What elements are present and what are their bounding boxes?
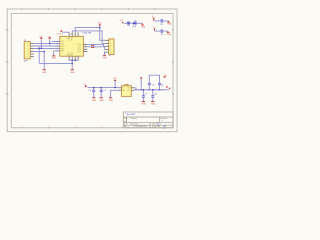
wire U1 right pin1 to J2 pin3: [87, 44, 105, 46]
cap circuit row1: power port VCC: [152, 16, 155, 21]
regulator U2 body: [122, 84, 132, 96]
port tag right of U1 pin 2: [91, 46, 94, 49]
cap circuit row2: power port VCC: [153, 27, 156, 31]
svg-text:1 2 3 4: 1 2 3 4: [69, 33, 74, 35]
connector J1 designator label: [24, 40, 27, 42]
svg-text:GND: GND: [52, 58, 57, 60]
ground under C3: [92, 92, 97, 102]
svg-text:Date:: Date:: [124, 123, 129, 126]
LED D1: [133, 20, 137, 28]
svg-text:Mini USB: Mini USB: [127, 114, 136, 116]
svg-text:R1: R1: [128, 25, 130, 27]
svg-text:GND: GND: [42, 72, 47, 74]
power port VCC at wire bend: [98, 22, 102, 27]
capacitor C7 stem: [142, 90, 144, 96]
svg-text:GND: GND: [70, 72, 75, 74]
capacitor C8 stem: [152, 90, 154, 96]
ground under C4: [99, 92, 104, 102]
wire regulator GND pin to ground: [111, 90, 119, 97]
svg-text:5: 5: [28, 54, 29, 56]
wire U1 right pin2 to J2 pin4: [87, 47, 105, 50]
junction rail meets pin2 vertical: [72, 63, 73, 64]
ground row2: [167, 31, 172, 36]
svg-text:D+ D-: D+ D-: [68, 40, 73, 42]
power port at loop top: [163, 75, 167, 78]
svg-text:1 / 1: 1 / 1: [157, 124, 161, 126]
junction rail left: [39, 48, 40, 49]
power port VCC above J1 area 1: [39, 36, 43, 48]
svg-text:GND: GND: [142, 104, 147, 106]
wire VCC to resistor: [124, 22, 128, 24]
wire row2: [155, 30, 168, 32]
wire J1 pin1 to U1: [34, 43, 60, 45]
capacitor C3: [89, 90, 96, 92]
junction bottom bus: [72, 60, 73, 61]
svg-text:C9: C9: [161, 34, 163, 36]
wire U1 bottom pin bus: [69, 59, 78, 61]
wire regulator out stub: [134, 88, 136, 90]
ground under C7: [142, 97, 147, 105]
junction C3: [93, 87, 94, 88]
svg-text:GND: GND: [151, 104, 156, 106]
capacitor C4: [100, 90, 107, 92]
connector J1 value label: [24, 60, 28, 62]
wire stub U1 pin1: [52, 40, 60, 42]
ground rail left ground: [42, 63, 47, 74]
wire U1 top pin3 to J2 pin1: [75, 28, 105, 41]
wire J1 pin3 to U1: [34, 47, 60, 49]
ground row1: [167, 21, 172, 26]
ground under J2: [103, 52, 108, 59]
svg-text:C:\USB\MINI.SCH: C:\USB\MINI.SCH: [133, 126, 148, 128]
power port VCC at U1 top-left: [59, 30, 69, 36]
svg-text:A4: A4: [124, 120, 126, 123]
svg-text:4: 4: [110, 49, 111, 51]
junction VCC stem 1: [41, 48, 42, 49]
junction VCC stem 2: [49, 43, 50, 44]
junction loop right: [159, 89, 160, 90]
IC U1 body: [57, 34, 84, 57]
svg-text:6: 6: [28, 57, 29, 59]
svg-text:7: 7: [85, 48, 86, 50]
svg-text:GND: GND: [167, 24, 172, 26]
power rail wire left: [88, 87, 119, 89]
IC U1 left pins: [56, 41, 60, 51]
sheet border inner frame: [11, 13, 173, 127]
IC U1 right pins: [83, 44, 87, 51]
svg-text:PD3: PD3: [78, 51, 82, 53]
wire vertical x39 to rail: [38, 48, 40, 63]
connector J1 pin numbers: [28, 43, 29, 58]
svg-text:8: 8: [85, 46, 86, 48]
svg-text:USB_M8: USB_M8: [83, 32, 93, 34]
capacitor C3 stem: [93, 88, 95, 90]
connector J2 pin numbers: [110, 40, 111, 54]
sheet border outer frame: [7, 9, 177, 132]
title block text: [127, 114, 136, 116]
svg-text:3: 3: [110, 46, 111, 48]
svg-text:2: 2: [110, 43, 111, 45]
svg-text:Drawn By:: Drawn By:: [152, 126, 161, 128]
connector J1 body: [24, 42, 30, 59]
capacitor C6: [158, 83, 163, 86]
power port VCC above J1 area 2: [48, 36, 52, 43]
svg-text:C8: C8: [160, 24, 162, 26]
IC U1 pin number text: [57, 33, 86, 52]
connector J2 body: [109, 39, 114, 55]
svg-text:3: 3: [28, 48, 29, 50]
port tag right of U1 pin: [91, 44, 94, 47]
svg-text:GND: GND: [141, 26, 146, 28]
junction loop left: [149, 89, 150, 90]
connector J1 pins: [30, 44, 34, 57]
svg-text:Size: Size: [124, 118, 128, 120]
ground at LED right: [141, 23, 146, 28]
capacitor C8: [151, 94, 157, 98]
title block: [123, 112, 173, 128]
svg-text:6: 6: [85, 50, 86, 52]
wire row1: [154, 20, 169, 22]
svg-text:GND: GND: [92, 100, 97, 102]
frame zone tick marks: [6, 8, 174, 129]
junction VCC right rail: [141, 89, 142, 90]
junction C7: [143, 89, 144, 90]
ground under C8: [151, 97, 156, 105]
IC U1 interior pin-name text: [61, 38, 81, 57]
connector J2 pins: [105, 40, 109, 52]
connector J2 designator label: [109, 55, 112, 57]
IC U1 top pins: [69, 32, 78, 36]
resistor R1: [127, 22, 130, 27]
capacitor C4 stem: [100, 88, 102, 90]
svg-text:C6: C6: [161, 84, 163, 86]
junction C8: [152, 89, 153, 90]
IC U1 bottom pins: [69, 56, 78, 60]
power rail wire right: [134, 89, 166, 91]
capacitor C1: [160, 19, 162, 26]
power port VCC right of regulator: [140, 77, 143, 90]
wire J1 pin4 to gnd rail: [34, 51, 44, 53]
junction VCC rail: [114, 87, 115, 88]
wire vertical from junction to rail: [43, 52, 45, 64]
wire U1 top pin2 to J2 pin2: [72, 31, 105, 44]
svg-text:5: 5: [110, 52, 111, 54]
svg-text:GND: GND: [99, 100, 104, 102]
power port VCC above rail: [113, 78, 117, 88]
regulator U2 pins: [119, 88, 134, 91]
svg-text:GND: GND: [103, 57, 108, 59]
capacitor C7: [142, 94, 148, 98]
regulator U2 interior text: [122, 88, 131, 93]
ground under U1 left: [52, 51, 60, 60]
svg-text:1: 1: [162, 121, 163, 123]
capacitor C5: [148, 83, 155, 86]
junction at VCC bend: [99, 27, 100, 28]
svg-text:PB4: PB4: [61, 51, 64, 53]
svg-text:Number: Number: [131, 118, 138, 120]
svg-text:UC PC: UC PC: [68, 53, 74, 55]
svg-text:1: 1: [110, 40, 111, 42]
svg-text:GND: GND: [109, 100, 114, 102]
svg-text:GND: GND: [167, 34, 172, 36]
power flag at rail right end: [134, 86, 171, 89]
svg-text:File:: File:: [124, 126, 128, 128]
IC U1 designator label: [83, 32, 93, 34]
junction J1 pin4: [44, 51, 45, 52]
wire J1 pin2 to U1: [34, 45, 60, 47]
junction C4: [101, 87, 102, 88]
ground rail right ground: [70, 70, 75, 74]
LED circuit: power port VCC left: [120, 20, 124, 23]
capacitor C2: [161, 29, 163, 36]
ground rail wire: [39, 62, 72, 64]
power rail left flag VI: [84, 84, 88, 87]
svg-text:9: 9: [85, 43, 86, 45]
wire LED to ground: [136, 22, 143, 24]
bypass loop wire: [149, 75, 159, 90]
ground under regulator: [109, 98, 114, 102]
junction bottom bus 2: [75, 60, 76, 61]
svg-text:ISP: ISP: [24, 60, 28, 62]
wire U1 bottom pin2 down: [71, 60, 73, 69]
wire resistor to LED: [130, 22, 133, 24]
